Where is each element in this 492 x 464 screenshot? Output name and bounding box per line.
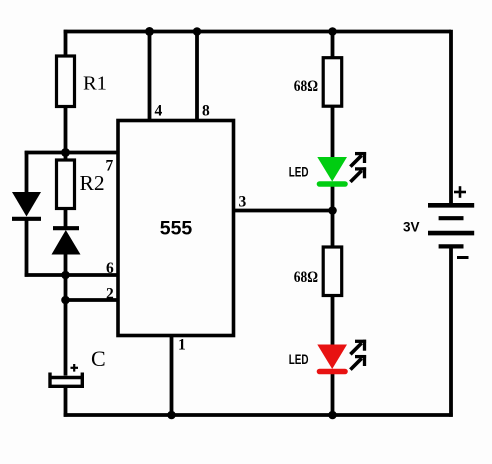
wire R1 bottom to node A (64, 106, 68, 161)
node junction top pin8 (193, 27, 202, 36)
svg-text:6: 6 (106, 260, 114, 277)
wire pin 4 (148, 32, 152, 122)
wire pin 8 (195, 32, 199, 122)
wire pin 6 (25, 273, 120, 277)
LED red arrows (350, 340, 366, 370)
wire pin 3 (233, 209, 333, 213)
wire pin 1 (170, 335, 174, 415)
resistor 68ohm upper (323, 58, 342, 106)
wire resistor 68ohm lower to red LED (331, 295, 335, 347)
svg-text:LED: LED (289, 164, 309, 179)
svg-text:C: C (91, 346, 106, 371)
svg-text:3: 3 (239, 194, 247, 211)
node junction pin 1 bottom rail (167, 411, 176, 420)
node junction pin 6 (61, 271, 70, 280)
wire resistor 68ohm upper to green LED (331, 106, 335, 160)
LED red D4 (317, 345, 347, 372)
wire LED branch top (331, 32, 335, 59)
resistor 68ohm lower (323, 247, 342, 296)
svg-text:555: 555 (160, 218, 193, 240)
node junction red LED bottom rail (328, 411, 337, 420)
wire D2 to capacitor (64, 252, 68, 376)
svg-text:8: 8 (202, 103, 210, 120)
svg-text:R1: R1 (83, 73, 107, 95)
wire green LED to resistor 68ohm lower (331, 185, 335, 248)
diode D1 (12, 192, 41, 219)
wire pin 2 (66, 298, 120, 302)
svg-text:LED: LED (289, 352, 309, 367)
wire top rail (64, 30, 451, 34)
svg-text:7: 7 (106, 158, 114, 175)
node junction top pin4 (145, 27, 154, 36)
capacitor C (50, 373, 83, 387)
wire D1 to pin6 rail (25, 219, 29, 277)
diode D2 (52, 228, 81, 254)
wire red LED to bottom rail (331, 373, 335, 416)
svg-text:2: 2 (106, 286, 114, 303)
svg-text:3V: 3V (403, 219, 420, 234)
svg-text:1: 1 (178, 337, 186, 354)
wire left branch horizontal (25, 151, 66, 155)
wire pin 7 (66, 151, 120, 155)
node junction pin 3 LED branch (328, 206, 337, 215)
battery BT1 3V (428, 205, 474, 246)
svg-text:68Ω: 68Ω (294, 269, 318, 286)
battery minus sign (457, 256, 469, 259)
svg-text:R2: R2 (80, 171, 105, 195)
resistor R2 (57, 160, 75, 209)
battery plus sign (454, 186, 466, 198)
capacitor plus sign (71, 364, 79, 372)
wire R2 bottom to D2 (64, 208, 68, 229)
LED green arrows (350, 152, 366, 182)
op-amp U1 555 timer body (118, 121, 234, 336)
wire left rail upper (64, 30, 68, 57)
resistor R1 (57, 56, 75, 107)
svg-text:4: 4 (155, 103, 163, 120)
node junction top LED branch (328, 27, 337, 36)
node junction pin 2 (61, 296, 70, 305)
wire right rail to battery plus (449, 30, 453, 205)
wire battery minus to bottom rail (449, 248, 453, 417)
wire capacitor to bottom rail (64, 387, 68, 417)
LED green D3 (317, 157, 347, 184)
node junction R1 bottom (61, 148, 70, 157)
wire left branch down to D1 (25, 151, 29, 194)
svg-text:68Ω: 68Ω (294, 78, 318, 95)
wire bottom rail (64, 413, 453, 417)
